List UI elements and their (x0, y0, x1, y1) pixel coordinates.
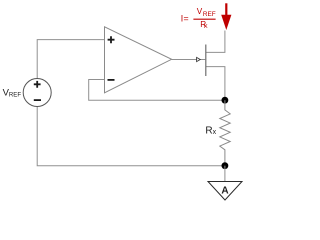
svg-text:Rx: Rx (205, 125, 216, 136)
wire op-amp output to gate (172, 59, 197, 61)
MOSFET Q1 channel bar (205, 45, 207, 77)
svg-text:REF: REF (203, 11, 216, 18)
svg-text:A: A (221, 186, 228, 197)
wire top-left: Vref top to op-amp + input (37, 40, 104, 79)
wire node to ground (224, 166, 226, 182)
V_REF plus sign (34, 81, 41, 88)
V_REF minus sign (34, 99, 41, 101)
svg-text:I=: I= (181, 13, 189, 23)
wire bottom-left: Vref bottom to bottom node (37, 107, 225, 166)
wire drain: bar to top, up to red arrow (206, 31, 225, 53)
wire feedback: op-amp - input to source node (89, 80, 225, 101)
node: source / Rx top junction (222, 97, 229, 104)
resistor Rx zigzag (220, 100, 230, 166)
node: Rx bottom junction (222, 162, 229, 169)
svg-text:V: V (197, 7, 203, 16)
op-amp minus input sign (108, 79, 115, 81)
red current arrow (221, 3, 231, 30)
red label I = VREF/Rx (181, 7, 216, 30)
wire source: bar down to node (206, 67, 225, 101)
svg-text:REF: REF (9, 91, 21, 98)
analog ground triangle A (208, 182, 242, 201)
svg-text:X: X (204, 24, 208, 30)
voltage source V_REF circle (23, 79, 51, 107)
MOSFET Q1 gate arrowhead (197, 57, 201, 61)
op-amp U1 triangle (105, 27, 172, 93)
op-amp plus input sign (108, 36, 115, 43)
wire gate arrow to bar (200, 59, 206, 61)
